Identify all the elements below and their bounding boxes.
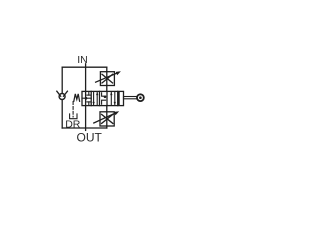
roller knob at rod end: [137, 94, 144, 101]
valve cell 1 internals: mid path with junction dot and blocked ports: [82, 92, 91, 105]
piston: [118, 91, 120, 105]
spring (return) on valve left: [74, 94, 80, 101]
drain pilot dashed line: [72, 102, 74, 117]
wire: F1 to valve body: [106, 86, 108, 92]
piston rod: [124, 97, 137, 99]
flow control valve F2 (bottom speed controller): [94, 111, 119, 126]
valve cell 3 internals: bent paths with junction dot: [102, 93, 107, 104]
wire: left vertical branch: [61, 67, 63, 93]
wire: bottom horizontal to OUT node: [62, 127, 107, 129]
wire: F2 to OUT line: [106, 126, 108, 128]
wire: valve bottom to F2: [106, 106, 108, 112]
valve body with cylinder section: [82, 91, 124, 105]
valve cell 2 internals: through-flow arrows: [92, 92, 98, 105]
wire: main vertical from IN to OUT: [85, 64, 87, 131]
wire: elbow down into top flow control: [106, 67, 108, 71]
wire: top horizontal branch: [62, 66, 107, 68]
valve cell 4 internals: through-flow arrows: [110, 92, 116, 105]
svg-text:OUT: OUT: [77, 130, 103, 144]
check valve on left branch: [57, 91, 68, 99]
flow control valve F1 (top speed controller): [96, 71, 121, 85]
drain cup: [70, 114, 77, 119]
